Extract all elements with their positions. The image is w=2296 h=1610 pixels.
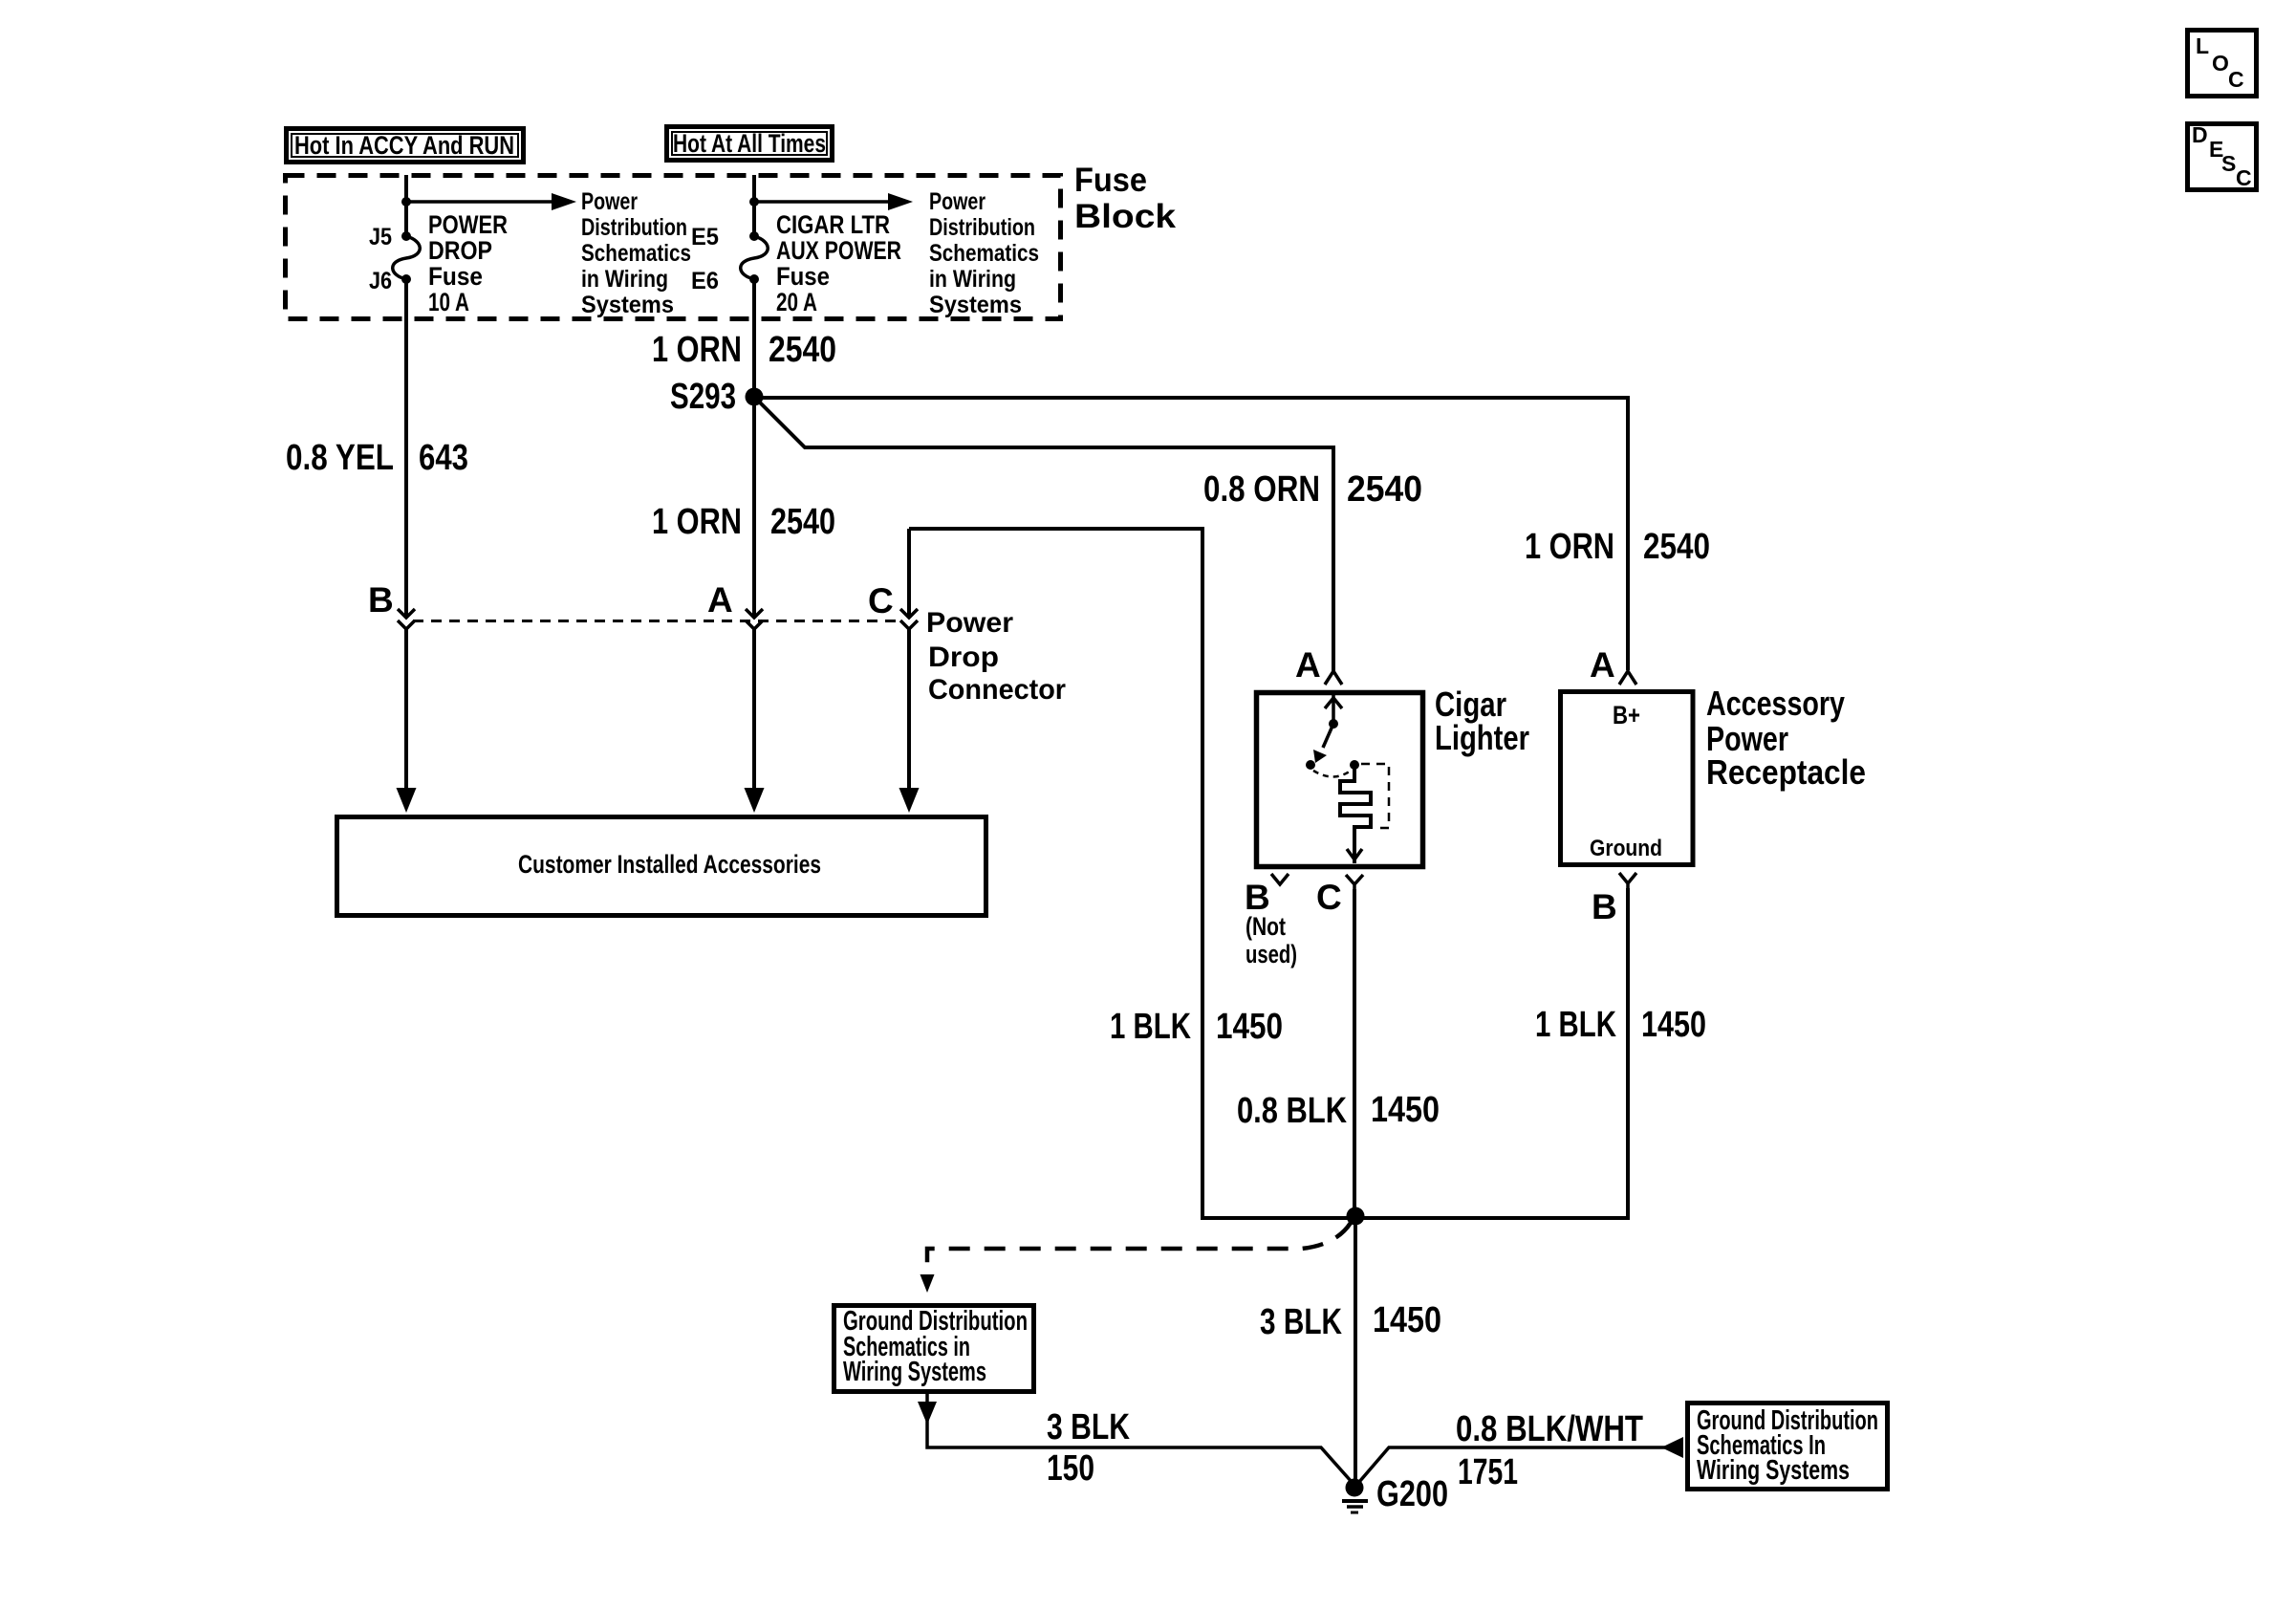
svg-text:Wiring Systems: Wiring Systems <box>843 1357 986 1387</box>
svg-text:Schematics: Schematics <box>581 240 691 267</box>
arrowhead into Ground Distribution box <box>921 1274 935 1293</box>
wire connector B to Customer Installed Accessories <box>404 629 408 789</box>
svg-text:O: O <box>2212 51 2229 76</box>
component name Cigar Lighter <box>1435 685 1529 757</box>
svg-text:in Wiring: in Wiring <box>929 266 1016 293</box>
DESC reference box <box>2188 122 2257 190</box>
svg-text:in Wiring: in Wiring <box>581 266 668 293</box>
fuse POWER DROP: pin J5 dot <box>401 231 411 241</box>
text Power Distribution Schematics in Wiring Systems (left) <box>581 188 691 318</box>
ground junction dot <box>1347 1207 1365 1226</box>
dashed contact arc <box>1313 771 1351 777</box>
switch contact dot (left) <box>1306 760 1315 770</box>
LOC reference box <box>2188 31 2257 97</box>
svg-text:2540: 2540 <box>769 330 836 370</box>
svg-text:Drop: Drop <box>928 642 999 673</box>
pin J6 dot <box>401 274 411 284</box>
wire label 0.8 YEL 643 <box>286 438 468 478</box>
wire S293 to Accessory Power Receptacle A (1 ORN 2540 right) <box>754 398 1628 670</box>
component box Cigar Lighter <box>1257 693 1423 867</box>
svg-text:1 ORN: 1 ORN <box>1525 527 1614 567</box>
svg-text:0.8 BLK: 0.8 BLK <box>1237 1091 1347 1131</box>
svg-text:Wiring Systems: Wiring Systems <box>1697 1455 1850 1486</box>
svg-text:POWER: POWER <box>428 210 508 239</box>
node junction dot at J feed <box>401 197 411 207</box>
wire label 0.8 ORN 2540 <box>1203 469 1422 510</box>
svg-text:Ground: Ground <box>1590 836 1662 861</box>
svg-text:Fuse: Fuse <box>776 262 830 291</box>
svg-text:used): used) <box>1245 940 1297 968</box>
wire S293 diagonal to Cigar Lighter A (0.8 ORN 2540) <box>754 397 1333 671</box>
svg-text:J6: J6 <box>369 268 392 294</box>
wire label 1 BLK 1450 (right) <box>1535 1005 1706 1045</box>
component box Customer Installed Accessories <box>337 817 986 916</box>
svg-text:DROP: DROP <box>428 236 492 265</box>
svg-text:D: D <box>2192 122 2208 147</box>
fuse element squiggle E5-E6 <box>741 236 769 279</box>
wire label 1 ORN 2540 (upper) <box>652 330 836 370</box>
svg-text:B: B <box>368 580 394 620</box>
switch contact dot (right) <box>1350 760 1359 770</box>
pin B chevron (not used) <box>1271 874 1289 884</box>
svg-text:B+: B+ <box>1613 701 1640 729</box>
svg-text:Accessory: Accessory <box>1706 684 1845 723</box>
arrowhead pointing left before right reference box <box>1661 1437 1683 1458</box>
wire label 0.8 BLK/WHT 1751 <box>1456 1409 1643 1492</box>
connector name Power Drop Connector <box>926 607 1066 706</box>
svg-text:E5: E5 <box>691 224 719 250</box>
fuse CIGAR LTR AUX POWER: pin E5 dot <box>749 231 759 241</box>
svg-text:Distribution: Distribution <box>581 214 687 241</box>
svg-text:Schematics: Schematics <box>929 240 1039 267</box>
Power Drop Connector dashed line <box>413 620 902 622</box>
svg-text:2540: 2540 <box>1643 527 1710 567</box>
svg-text:S293: S293 <box>670 377 736 417</box>
svg-text:Fuse: Fuse <box>1074 162 1147 199</box>
svg-text:Power: Power <box>581 188 638 215</box>
ground G200 dot <box>1346 1479 1364 1497</box>
svg-text:0.8 YEL: 0.8 YEL <box>286 438 394 478</box>
svg-text:Block: Block <box>1074 198 1177 235</box>
svg-text:0.8 ORN: 0.8 ORN <box>1203 469 1320 510</box>
connector chevron at Accessory Power Receptacle A <box>1619 671 1636 685</box>
open arrow at element exit <box>1347 849 1362 859</box>
svg-text:1450: 1450 <box>1641 1005 1706 1045</box>
svg-text:C: C <box>1316 878 1342 917</box>
svg-text:10 A: 10 A <box>428 288 469 316</box>
arrow to Power Distribution Schematics (left) <box>406 200 552 204</box>
svg-text:3 BLK: 3 BLK <box>1047 1407 1130 1447</box>
wire label 3 BLK 150 <box>1047 1407 1130 1489</box>
fuse element squiggle J5-J6 <box>393 236 421 279</box>
svg-text:2540: 2540 <box>1347 469 1422 510</box>
svg-text:A: A <box>707 580 733 620</box>
wire 1 ORN 2540 from E6 down to S293 <box>752 279 756 617</box>
note (Not used) <box>1245 912 1297 968</box>
svg-text:AUX POWER: AUX POWER <box>776 236 901 265</box>
fuse value label POWER DROP Fuse 10 A <box>428 210 508 316</box>
wire from Hot At All Times to fuse E5 <box>752 175 756 233</box>
reference box Ground Distribution Schematics in Wiring Systems (left) <box>834 1306 1034 1392</box>
svg-text:1450: 1450 <box>1371 1090 1440 1130</box>
splice S293 dot <box>746 388 764 406</box>
connector pin C chevrons <box>900 609 918 629</box>
svg-text:1 ORN: 1 ORN <box>652 330 742 370</box>
fuse block label <box>1074 162 1177 235</box>
node label box "Hot In ACCY And RUN" <box>287 129 524 163</box>
node label box "Hot At All Times" <box>667 127 833 161</box>
svg-text:B: B <box>1592 887 1617 926</box>
component name Accessory Power Receptacle <box>1706 684 1866 792</box>
svg-text:0.8 BLK/WHT: 0.8 BLK/WHT <box>1456 1409 1643 1449</box>
pin C chevron (Y) <box>1346 875 1363 894</box>
svg-text:150: 150 <box>1047 1448 1094 1489</box>
svg-text:S: S <box>2221 151 2236 176</box>
wire 1 ORN from C corner to connector C and Customer box <box>907 529 911 789</box>
wire from Ground Distribution box to G200 (3 BLK 150) <box>927 1394 1352 1482</box>
pin B chevron (receptacle) <box>1619 873 1636 893</box>
svg-text:CIGAR LTR: CIGAR LTR <box>776 210 890 239</box>
svg-text:J5: J5 <box>369 224 392 250</box>
wire 0.8 YEL 643 from J6 down to connector B <box>404 279 408 617</box>
svg-text:1450: 1450 <box>1373 1300 1441 1340</box>
wire label 1 BLK 1450 (left) <box>1110 1007 1283 1047</box>
fuse block dashed outline <box>286 176 1061 319</box>
svg-text:Fuse: Fuse <box>428 262 483 291</box>
svg-text:A: A <box>1295 645 1321 685</box>
svg-text:1 ORN: 1 ORN <box>652 502 742 542</box>
svg-text:20 A: 20 A <box>776 288 817 316</box>
svg-text:1450: 1450 <box>1216 1007 1283 1047</box>
heater element meander <box>1340 765 1371 863</box>
svg-text:Receptacle: Receptacle <box>1706 752 1866 792</box>
svg-text:Power: Power <box>929 188 986 215</box>
svg-text:2540: 2540 <box>770 502 835 542</box>
svg-text:C: C <box>868 581 894 620</box>
fuse value label CIGAR LTR AUX POWER Fuse 20 A <box>776 210 901 316</box>
wire label 1 ORN 2540 (right) <box>1525 527 1710 567</box>
svg-text:C: C <box>2228 67 2244 92</box>
svg-text:G200: G200 <box>1376 1474 1448 1514</box>
wire 0.8 BLK 1450 from cigar C to ground junction <box>1353 889 1356 1216</box>
svg-text:E6: E6 <box>691 268 719 294</box>
wire 0.8 BLK/WHT 1751 from G200 to right reference box <box>1359 1447 1680 1482</box>
arrowhead below Ground Distribution box <box>918 1402 937 1425</box>
svg-text:Customer Installed Accessories: Customer Installed Accessories <box>518 850 821 879</box>
svg-text:Connector: Connector <box>928 674 1066 706</box>
reference box Ground Distribution Schematics In Wiring Systems (right) <box>1688 1403 1888 1490</box>
svg-text:3 BLK: 3 BLK <box>1260 1302 1342 1342</box>
svg-text:Hot At All Times: Hot At All Times <box>673 129 826 158</box>
svg-text:643: 643 <box>419 438 468 478</box>
connector chevron at Cigar Lighter A <box>1325 671 1342 685</box>
switch pivot dot <box>1329 719 1338 729</box>
svg-text:1 BLK: 1 BLK <box>1535 1005 1616 1045</box>
node junction dot at E feed <box>749 197 759 207</box>
svg-text:Lighter: Lighter <box>1435 718 1529 757</box>
dashed reference line from junction to Ground Distribution box <box>927 1223 1351 1269</box>
svg-text:B: B <box>1245 878 1270 917</box>
ground symbol G200 <box>1342 1499 1368 1503</box>
svg-text:L: L <box>2196 33 2209 58</box>
wire 1 BLK 1450 from receptacle B to ground junction <box>1361 888 1628 1218</box>
wire from Hot In ACCY to fuse J5 <box>404 175 408 233</box>
svg-text:Systems: Systems <box>929 292 1022 318</box>
cigar lighter internal wire and chevron at A <box>1332 692 1335 724</box>
wire label 0.8 BLK 1450 <box>1237 1090 1440 1131</box>
svg-text:Hot In ACCY And RUN: Hot In ACCY And RUN <box>294 131 514 160</box>
svg-text:Systems: Systems <box>581 292 674 318</box>
connector pin A chevrons <box>746 609 763 629</box>
svg-text:1 BLK: 1 BLK <box>1110 1007 1191 1047</box>
arrow to Power Distribution Schematics (right) <box>754 200 889 204</box>
wire 3 BLK 1450 junction to G200 <box>1354 1216 1357 1484</box>
svg-text:A: A <box>1590 645 1615 685</box>
wire label 3 BLK 1450 <box>1260 1300 1441 1342</box>
pin E6 dot <box>749 274 759 284</box>
connector pin B chevrons <box>398 609 415 629</box>
dashed bimetal latch rectangle <box>1361 764 1389 828</box>
svg-text:Power: Power <box>926 607 1013 639</box>
text Power Distribution Schematics in Wiring Systems (right) <box>929 188 1039 318</box>
svg-text:1751: 1751 <box>1458 1452 1518 1492</box>
wire label 1 ORN 2540 (lower, above connector A) <box>652 502 835 542</box>
svg-text:(Not: (Not <box>1245 912 1286 941</box>
svg-text:Distribution: Distribution <box>929 214 1035 241</box>
svg-text:C: C <box>2236 165 2252 190</box>
wire connector A to Customer Installed Accessories <box>752 629 756 789</box>
wire C branch horizontal to 1 BLK drop <box>909 529 1350 1218</box>
switch arm with arrowhead <box>1323 724 1333 748</box>
component box Accessory Power Receptacle <box>1561 692 1694 865</box>
